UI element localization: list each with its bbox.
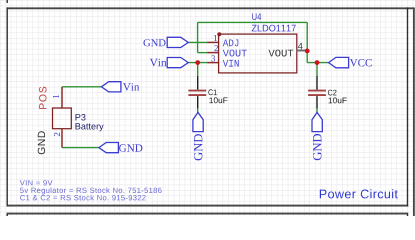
global label Vin battery text (123, 83, 139, 91)
global label GND under C1 text (194, 134, 202, 160)
global label Vin text (150, 59, 167, 67)
global label GND battery text (119, 144, 142, 152)
wire node down to C1 (197, 63, 199, 77)
note line VIN = 9V (20, 180, 53, 185)
capacitor C1 plate bottom (188, 94, 206, 96)
junction node VIN/C1 (195, 60, 200, 65)
regulator origin dot (217, 32, 221, 36)
wire C1 to GND label (197, 108, 199, 113)
pin name VOUT left (223, 50, 247, 57)
wire C2 to GND label (316, 108, 318, 113)
wire VOUT feedback loop top horizontal (198, 21, 308, 23)
battery pin 2 line (61, 129, 63, 148)
global label VCC (329, 57, 349, 67)
global label GND under C2 text (313, 134, 321, 160)
pin 4 number (298, 43, 303, 49)
C2 reference label (328, 90, 336, 96)
wire battery pin 2 to GND label (62, 147, 99, 149)
junction node VCC/C2 (315, 60, 320, 65)
wire node down to C2 (316, 63, 318, 77)
net name POS (39, 87, 46, 109)
wire VOUT feedback loop right vertical (306, 22, 308, 62)
P3 reference label (76, 114, 86, 121)
C1 reference label (208, 89, 216, 95)
wire GND label to ADJ pin 1 (188, 41, 208, 43)
global label GND at battery (99, 143, 119, 153)
pin 1 number (214, 35, 217, 41)
capacitor C2 plate top (308, 90, 326, 92)
global label GND text (144, 39, 166, 46)
capacitor C2 top pin (316, 76, 318, 89)
wire Vin label to VIN pin 3 (188, 62, 208, 64)
pin name VIN (223, 60, 239, 67)
pin 2 number (214, 45, 218, 51)
Battery value label (76, 123, 104, 131)
regulator U4 ZLDO1117 body rectangle (219, 34, 297, 73)
pin 3 VIN stub (208, 62, 219, 64)
capacitor C1 bottom pin (197, 96, 199, 108)
global label Vin at battery (101, 82, 121, 92)
wire pin 4 node to VCC label (307, 62, 328, 64)
battery connector P3 body (53, 108, 72, 129)
pin 2 VOUT stub (208, 52, 219, 54)
pin 1 ADJ stub (208, 41, 219, 43)
C1 value 10uF (209, 97, 227, 103)
capacitor C2 plate bottom (308, 94, 326, 96)
pin name VOUT right (269, 50, 294, 57)
U4 reference label (252, 13, 261, 20)
sheet title Power Circuit (320, 189, 398, 198)
junction node pin4/loop (305, 49, 310, 54)
battery pin 1 number (53, 95, 59, 98)
capacitor C1 top pin (197, 76, 199, 89)
global label Vin to VIN (167, 58, 188, 68)
pin name ADJ (223, 40, 239, 47)
C2 value 10uF (329, 98, 347, 104)
battery pin 2 number (54, 133, 60, 137)
global label GND under C2 (312, 112, 322, 131)
wire battery pin 1 to Vin label (62, 86, 101, 88)
capacitor C1 plate top (188, 90, 206, 92)
ZLDO1117 value label (252, 25, 296, 32)
capacitor C2 bottom pin (316, 96, 318, 108)
wire VOUT feedback loop left vertical (197, 22, 199, 52)
global label VCC text (350, 59, 372, 67)
global label GND under C1 (193, 112, 203, 131)
pin 4 VOUT stub (296, 50, 306, 52)
net name GND battery negative (38, 131, 45, 154)
note line C1 C2 (20, 195, 145, 201)
global label GND to ADJ (167, 37, 188, 47)
battery pin 1 line (61, 87, 63, 108)
pin 3 number (211, 55, 215, 61)
note line 5v Regulator (20, 187, 162, 194)
wire pin 2 VOUT connection (198, 52, 208, 54)
